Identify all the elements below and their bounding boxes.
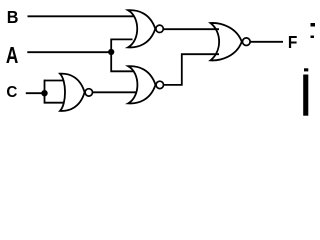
artifact dash top right 2 [311, 36, 315, 39]
gate U2 NOR (C inverter) [60, 74, 93, 111]
gate U4 NOR (output F) [211, 23, 251, 60]
artifact dash right middle [304, 68, 308, 71]
svg-text:C: C [6, 83, 17, 100]
wire A to junction [27, 51, 111, 53]
node junction dot on C [41, 90, 47, 96]
wire U2 output to U3 bottom input [92, 91, 136, 93]
svg-text:B: B [7, 7, 19, 27]
artifact dash top right 1 [311, 23, 316, 27]
wire C to junction [26, 92, 45, 94]
node junction dot on A [108, 49, 114, 55]
wire junction A up to U1 lower input [111, 39, 132, 52]
wire C lower branch to U2 bottom input [45, 102, 65, 104]
wire U1 output to U4 top input [163, 28, 219, 30]
gate U3 NOR (middle) [128, 66, 163, 103]
wire C upper branch to U2 top input [45, 80, 64, 82]
label F [288, 32, 297, 52]
svg-text:F: F [288, 32, 297, 52]
artifact bar bottom right [303, 75, 308, 116]
wire B to U1 top input [28, 15, 134, 17]
label A [6, 44, 19, 69]
label B [7, 7, 19, 27]
wire C split vertical [44, 80, 46, 104]
label C [6, 83, 17, 100]
wire U4 output to F [250, 41, 283, 43]
svg-text:A: A [6, 44, 19, 69]
wire junction A down to U3 top input [111, 52, 133, 71]
gate U1 NOR (inputs B, A) [128, 10, 163, 47]
wire U3 output riser to U4 bottom input [164, 54, 220, 85]
